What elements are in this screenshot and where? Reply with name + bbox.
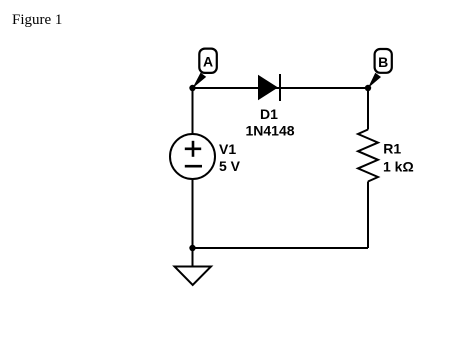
svg-text:R1: R1 — [383, 141, 401, 157]
svg-text:V1: V1 — [219, 141, 236, 157]
svg-text:B: B — [378, 54, 388, 70]
svg-text:1 kΩ: 1 kΩ — [383, 159, 414, 175]
svg-text:A: A — [203, 54, 213, 70]
svg-text:5 V: 5 V — [219, 158, 241, 174]
svg-text:D1: D1 — [260, 106, 278, 122]
svg-text:1N4148: 1N4148 — [245, 123, 294, 139]
svg-text:Figure 1: Figure 1 — [12, 12, 62, 28]
